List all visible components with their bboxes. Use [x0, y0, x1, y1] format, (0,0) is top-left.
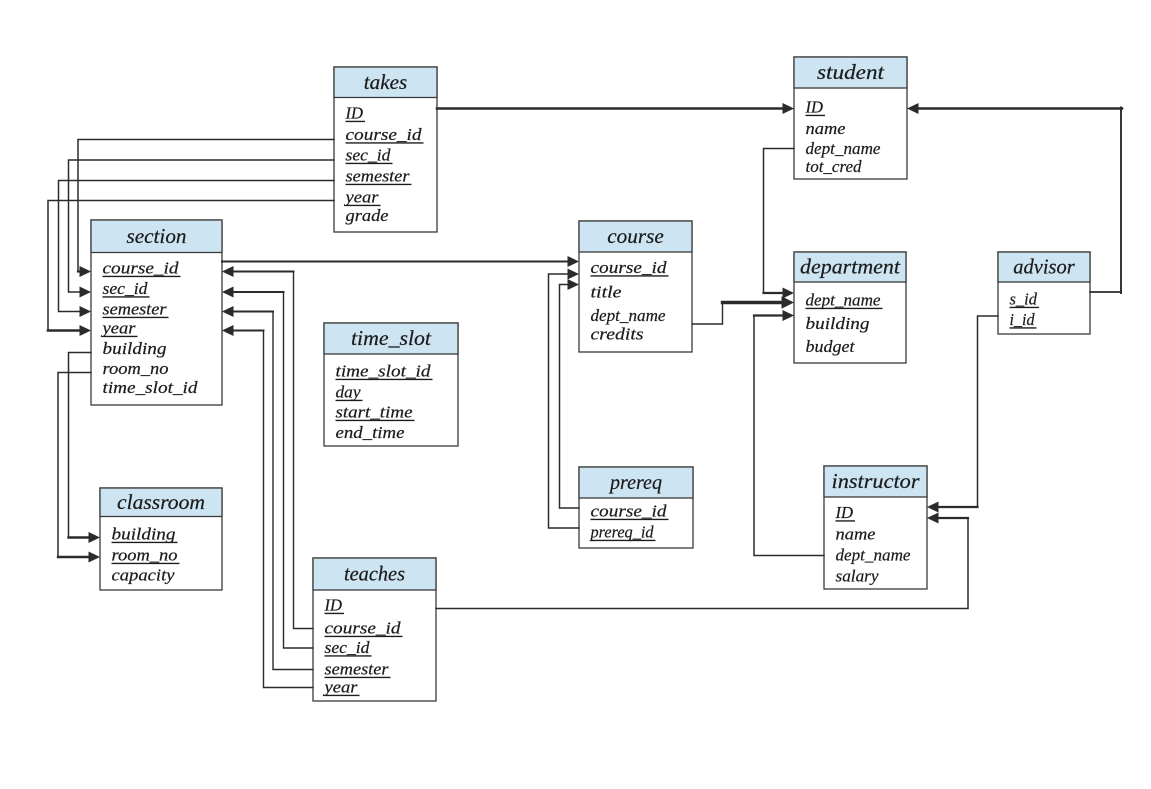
table student [794, 57, 907, 179]
svg-text:semester: semester [346, 167, 410, 186]
svg-text:advisor: advisor [1013, 255, 1075, 279]
fk line takes.ID to student.ID [437, 103, 794, 114]
fk line takes.year to section [48, 201, 334, 337]
fk line section.room_no to classroom.room_no [58, 373, 100, 563]
svg-text:capacity: capacity [112, 566, 175, 585]
fk line teaches.sec_id to section [222, 287, 313, 649]
svg-text:ID: ID [345, 104, 364, 123]
table course [579, 221, 692, 352]
svg-text:section: section [127, 224, 187, 248]
svg-text:building: building [112, 525, 176, 544]
svg-text:name: name [836, 525, 876, 544]
table teaches [313, 558, 436, 701]
svg-text:dept_name: dept_name [806, 291, 881, 310]
svg-text:prereq_id: prereq_id [590, 523, 654, 542]
svg-text:i_id: i_id [1010, 310, 1035, 329]
svg-text:sec_id: sec_id [103, 279, 149, 298]
table instructor [824, 466, 927, 589]
svg-text:course_id: course_id [346, 125, 423, 144]
table classroom [100, 488, 222, 590]
svg-text:room_no: room_no [103, 359, 169, 378]
fk line teaches.course_id to section [222, 266, 313, 629]
fk line takes.course_id to section [78, 140, 334, 278]
svg-text:budget: budget [806, 337, 856, 356]
svg-text:course_id: course_id [591, 258, 668, 277]
fk line prereq.prereq_id to course [549, 269, 580, 529]
svg-text:building: building [103, 339, 167, 358]
fk line teaches.ID to instructor.ID [436, 513, 968, 609]
table time_slot [324, 323, 458, 446]
svg-text:start_time: start_time [336, 403, 414, 422]
svg-text:ID: ID [324, 596, 343, 615]
svg-text:year: year [343, 188, 379, 207]
fk line advisor.s_id to student.ID [907, 103, 1122, 293]
svg-text:grade: grade [346, 206, 389, 225]
fk line section.course_id to course.course_id [222, 256, 579, 267]
svg-text:credits: credits [591, 325, 644, 344]
svg-text:department: department [800, 255, 901, 279]
fk line takes.sec_id to section [69, 160, 335, 298]
svg-text:name: name [806, 119, 846, 138]
table department [794, 252, 906, 363]
svg-text:course: course [607, 224, 664, 248]
table section [91, 220, 222, 405]
svg-text:ID: ID [805, 98, 824, 117]
svg-text:instructor: instructor [832, 469, 921, 493]
svg-text:time_slot_id: time_slot_id [103, 378, 199, 397]
svg-text:year: year [322, 678, 358, 697]
svg-text:sec_id: sec_id [346, 146, 392, 165]
svg-text:tot_cred: tot_cred [806, 157, 862, 176]
svg-text:building: building [806, 314, 870, 333]
svg-text:course_id: course_id [103, 259, 180, 278]
svg-text:course_id: course_id [591, 502, 668, 521]
table takes [334, 67, 437, 232]
table prereq [579, 467, 693, 548]
svg-text:s_id: s_id [1010, 290, 1038, 309]
svg-text:dept_name: dept_name [836, 546, 911, 565]
svg-text:end_time: end_time [336, 423, 405, 442]
svg-text:student: student [817, 60, 885, 84]
svg-text:dept_name: dept_name [591, 306, 666, 325]
svg-text:prereq: prereq [608, 470, 662, 494]
svg-text:salary: salary [836, 567, 879, 586]
svg-text:ID: ID [835, 503, 854, 522]
fk line student.dept_name to department.dept_name [764, 149, 795, 299]
svg-text:semester: semester [325, 660, 389, 679]
svg-text:semester: semester [103, 300, 167, 319]
svg-text:day: day [336, 383, 361, 402]
fk line section.building to classroom.building [69, 353, 101, 544]
svg-text:title: title [591, 283, 623, 302]
svg-text:sec_id: sec_id [325, 638, 371, 657]
svg-text:year: year [100, 319, 136, 338]
fk line advisor.i_id to instructor.ID [927, 316, 998, 513]
svg-text:time_slot_id: time_slot_id [336, 362, 432, 381]
table advisor [998, 252, 1090, 334]
fk line prereq.course_id to course [560, 279, 580, 508]
svg-text:course_id: course_id [325, 619, 402, 638]
fk line takes.semester to section [59, 181, 335, 318]
svg-text:dept_name: dept_name [806, 139, 881, 158]
svg-text:time_slot: time_slot [351, 326, 432, 350]
svg-text:classroom: classroom [117, 490, 205, 514]
svg-text:teaches: teaches [344, 562, 405, 586]
fk line course.dept_name to department.dept_name [692, 296, 794, 324]
fk line teaches.semester to section [222, 306, 313, 670]
fk line teaches.year to section [222, 325, 313, 688]
svg-text:takes: takes [364, 70, 408, 94]
svg-text:room_no: room_no [112, 546, 178, 565]
fk line instructor.dept_name to department.dept_name [754, 310, 824, 556]
